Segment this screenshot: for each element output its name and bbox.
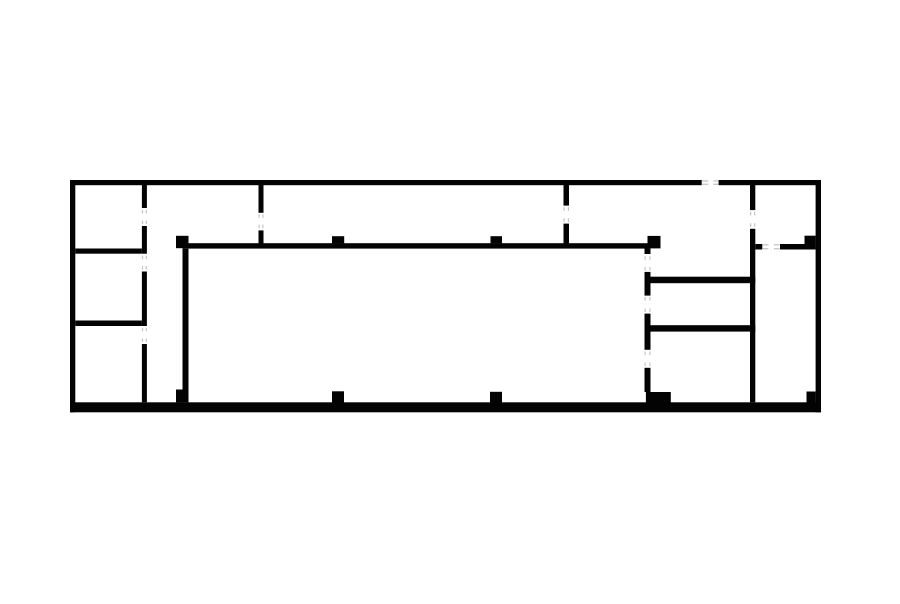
interior wall V2 lower segment bbox=[259, 230, 264, 248]
column tab bottom-right of hall bbox=[646, 392, 671, 403]
outer wall right bbox=[816, 180, 821, 412]
outer wall bottom (thick) bbox=[70, 402, 821, 412]
column pillar at H5 right end bbox=[805, 236, 816, 250]
door opening G1 ticks (hall right wall) bbox=[645, 256, 646, 260]
hall top wall bbox=[189, 243, 648, 248]
interior wall H5 right segment bbox=[780, 244, 816, 250]
door opening V1 gap B ticks bbox=[142, 256, 143, 259]
interior wall V3 lower segment bbox=[564, 224, 570, 248]
column tab T4 on bottom wall bbox=[490, 392, 502, 403]
hall right wall segment 3 bbox=[645, 368, 651, 392]
door opening G3 ticks bbox=[645, 352, 646, 356]
interior wall V1 bottom segment bbox=[142, 344, 147, 402]
door opening V4 ticks bbox=[750, 212, 751, 216]
interior wall V3 upper segment bbox=[564, 185, 570, 206]
door opening V1 gap A ticks bbox=[142, 210, 143, 213]
column tab T2 on hall top wall bbox=[491, 236, 503, 243]
interior wall V1 upper segment bbox=[142, 185, 147, 208]
hall right wall stub below pillar bbox=[645, 248, 651, 254]
interior wall V4 upper segment bbox=[750, 185, 755, 210]
interior wall H4 (right rooms divider) bbox=[651, 325, 756, 331]
column pillar bottom-left of hall bbox=[176, 390, 189, 403]
column tab T1 on hall top wall bbox=[332, 236, 344, 243]
outer wall top, right segment bbox=[719, 180, 821, 185]
door opening V3 ticks bbox=[564, 207, 565, 211]
column tab bottom-right corner room bbox=[807, 392, 816, 403]
interior wall V4 lower segment bbox=[750, 229, 755, 402]
column pillar top-left of hall bbox=[176, 236, 189, 248]
interior wall H1 (left room divider) bbox=[75, 249, 142, 254]
interior wall V2 upper segment bbox=[259, 185, 264, 213]
column pillar top-right of hall bbox=[648, 236, 661, 249]
hall right wall segment 2 bbox=[645, 314, 651, 350]
column tab T3 on bottom wall bbox=[332, 391, 344, 402]
outer wall top, left segment bbox=[70, 180, 702, 185]
door opening V1 gap C ticks bbox=[142, 328, 143, 331]
interior wall H2 (left room divider) bbox=[75, 321, 142, 327]
door opening V2 ticks bbox=[259, 214, 260, 218]
outer wall left bbox=[70, 180, 75, 412]
hall right wall segment 1 bbox=[645, 272, 651, 296]
interior wall H3 (right rooms divider) bbox=[651, 277, 756, 284]
hall left wall bbox=[183, 248, 189, 389]
interior wall V1 second segment bbox=[142, 226, 147, 254]
interior wall V1 third segment bbox=[142, 272, 147, 327]
door opening G2 ticks bbox=[645, 297, 646, 301]
door opening H5 ticks bbox=[763, 244, 769, 245]
door opening in top outer wall bbox=[702, 180, 708, 181]
interior wall H5 left stub bbox=[755, 244, 762, 250]
